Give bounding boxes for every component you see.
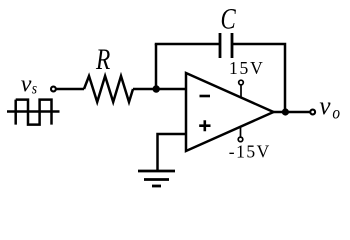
input terminal <box>51 87 56 92</box>
svg-text:v: v <box>319 93 331 120</box>
ground <box>138 171 175 186</box>
svg-text:R: R <box>95 42 110 75</box>
svg-text:o: o <box>332 102 340 122</box>
square wave symbol <box>7 100 60 125</box>
wire output <box>274 111 310 114</box>
svg-text:v: v <box>21 72 32 98</box>
resistor R <box>84 76 133 102</box>
label vo <box>319 93 340 123</box>
wire plus input <box>158 133 187 171</box>
wire resistor to inverting input <box>133 88 186 91</box>
svg-text:15V: 15V <box>229 58 265 78</box>
svg-text:-15V: -15V <box>229 141 271 161</box>
output terminal <box>310 110 315 115</box>
node A junction dot <box>153 85 160 92</box>
svg-text:s: s <box>32 81 37 98</box>
node B output junction dot <box>282 108 289 115</box>
op-amp plus sign <box>199 120 210 131</box>
wire capacitor to output node <box>232 43 285 112</box>
+15V pin <box>239 80 244 97</box>
wire terminal to resistor <box>57 88 85 91</box>
wire feedback top to capacitor <box>155 43 220 46</box>
op-amp U1 <box>186 73 274 151</box>
capacitor C <box>220 33 232 58</box>
wire feedback vertical up <box>155 44 158 89</box>
-15V pin <box>238 127 243 142</box>
op-amp minus sign <box>200 95 211 98</box>
svg-text:C: C <box>221 2 236 36</box>
source label vs <box>21 72 37 98</box>
